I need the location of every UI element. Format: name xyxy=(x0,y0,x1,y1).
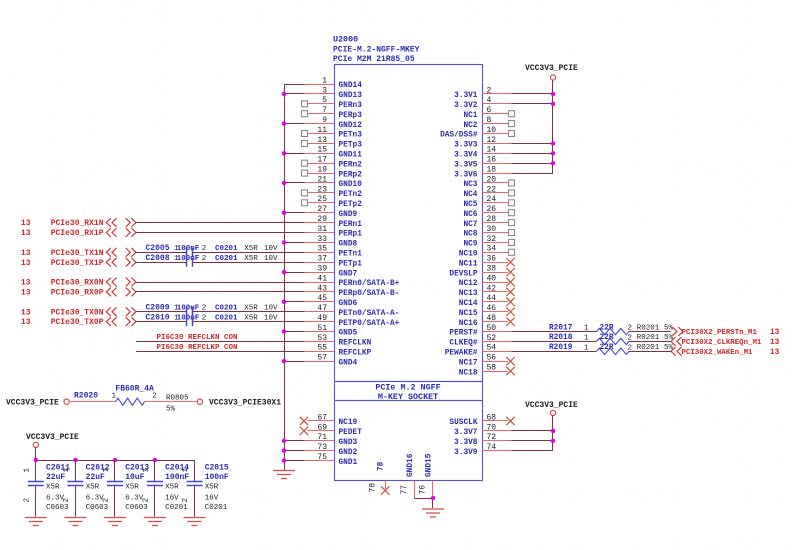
ground symbol left bus xyxy=(273,471,295,479)
svg-text:R2017: R2017 xyxy=(549,324,573,332)
pin 21 GND10 xyxy=(305,175,363,189)
wire pin 18 to VCC rail xyxy=(512,173,554,175)
svg-text:PEDET: PEDET xyxy=(339,429,363,437)
svg-text:3.3V6: 3.3V6 xyxy=(454,171,478,179)
junction VCC rail pin 14 xyxy=(551,151,555,155)
svg-text:X5R: X5R xyxy=(165,483,179,491)
svg-text:13: 13 xyxy=(21,229,31,238)
wire pin 74 to VCC rail bottom right xyxy=(512,450,554,452)
svg-text:PERST#: PERST# xyxy=(449,330,477,338)
pin 49 PETP0/SATA-A+ xyxy=(305,314,400,328)
pin 72 3.3V8 xyxy=(454,433,511,447)
svg-text:13: 13 xyxy=(21,259,31,268)
svg-text:PERn3: PERn3 xyxy=(339,102,363,110)
pin 24 NC5 xyxy=(463,195,514,209)
svg-text:M-KEY SOCKET: M-KEY SOCKET xyxy=(378,392,438,402)
svg-text:X5R: X5R xyxy=(46,483,60,491)
svg-text:2: 2 xyxy=(152,393,157,401)
svg-text:13: 13 xyxy=(21,318,31,327)
svg-text:10uF: 10uF xyxy=(125,473,144,482)
pin 5 PERn3 xyxy=(302,96,363,110)
pin 6 NC1 xyxy=(463,106,514,120)
wire capacitor bank bus xyxy=(36,460,195,462)
wire pin 12 to VCC rail xyxy=(512,143,554,145)
wire GND bus vertical xyxy=(284,84,286,471)
wire pin 51 to GND bus xyxy=(284,331,305,333)
svg-text:NC5: NC5 xyxy=(463,201,477,209)
power VCC3V3_PCIE top right xyxy=(525,64,578,80)
wire pin 14 to VCC rail xyxy=(512,153,554,155)
svg-text:22R: 22R xyxy=(600,344,614,352)
wire VCC rail vertical bottom right xyxy=(552,416,554,451)
pin 70 3.3V7 xyxy=(454,423,511,437)
pin 29 PERn1 xyxy=(305,215,363,229)
wire capacitor C2005 pin 2 to pin 35 xyxy=(192,252,304,254)
svg-text:1: 1 xyxy=(182,468,190,473)
svg-text:1: 1 xyxy=(143,468,151,473)
svg-text:PCIE-M.2-NGFF-MKEY: PCIE-M.2-NGFF-MKEY xyxy=(333,46,420,55)
capacitor C2005 100nF series xyxy=(146,244,279,257)
capacitor C2015 100nF xyxy=(182,460,229,517)
junction GND bus pin 9 xyxy=(282,121,286,125)
junction GND bus pin 51 xyxy=(282,329,286,333)
U2000 reference designator xyxy=(333,35,358,45)
pin 45 GND6 xyxy=(305,294,358,308)
wire pin 33 to GND bus xyxy=(284,242,305,244)
wire pin 77 to pin 76 xyxy=(414,498,433,508)
junction cap bus C2012 xyxy=(73,458,77,462)
svg-text:PI6C30 REFCLKP CON: PI6C30 REFCLKP CON xyxy=(157,344,238,352)
svg-text:1: 1 xyxy=(584,325,589,333)
svg-text:100nF: 100nF xyxy=(177,255,200,263)
svg-text:R2020: R2020 xyxy=(74,392,98,401)
wire pin 57 to GND bus xyxy=(284,361,305,363)
svg-text:C2005: C2005 xyxy=(146,244,170,253)
svg-text:NC6: NC6 xyxy=(463,211,477,219)
svg-text:PERp1: PERp1 xyxy=(339,231,363,239)
svg-text:X5R: X5R xyxy=(244,255,258,263)
node PCI30X2_PERSTn_M1 off-page connector xyxy=(672,327,779,337)
pin 14 3.3V4 xyxy=(454,146,511,160)
pin 25 PETp2 xyxy=(302,195,363,209)
svg-text:PETn2: PETn2 xyxy=(339,191,363,199)
svg-text:NC7: NC7 xyxy=(463,221,477,229)
svg-text:100nF: 100nF xyxy=(177,245,200,253)
svg-text:PCI30X2_CLKREQn_M1: PCI30X2_CLKREQn_M1 xyxy=(682,339,762,347)
junction VCC rail pin 70 xyxy=(551,429,555,433)
pin 19 PERp2 xyxy=(302,166,363,180)
pin 42 NC13 xyxy=(459,284,515,298)
svg-text:PETn0/SATA-A-: PETn0/SATA-A- xyxy=(339,310,400,318)
pin 11 PETn3 xyxy=(302,126,363,140)
svg-text:GND8: GND8 xyxy=(339,241,358,249)
svg-text:78: 78 xyxy=(378,461,386,471)
svg-text:VCC3V3_PCIE: VCC3V3_PCIE xyxy=(26,433,79,442)
pin 56 NC17 xyxy=(459,354,515,368)
svg-text:PERn1: PERn1 xyxy=(339,221,363,229)
svg-text:10V: 10V xyxy=(264,245,278,253)
svg-text:1: 1 xyxy=(103,468,111,473)
pin 15 GND11 xyxy=(305,146,363,160)
pin 33 GND8 xyxy=(305,235,358,249)
label strip PCIe M.2 NGFF xyxy=(375,383,440,393)
svg-text:U2000: U2000 xyxy=(333,35,358,45)
svg-text:GND13: GND13 xyxy=(339,92,363,100)
wire pin 54 to resistor R2019 xyxy=(512,351,597,353)
svg-text:PETP0/SATA-A+: PETP0/SATA-A+ xyxy=(339,320,400,328)
junction GND bus pin 71 xyxy=(282,439,286,443)
svg-text:C0201: C0201 xyxy=(205,504,228,512)
svg-text:77: 77 xyxy=(400,485,409,495)
svg-text:6.3V: 6.3V xyxy=(46,494,65,502)
svg-text:GND6: GND6 xyxy=(339,300,358,308)
svg-text:X5R: X5R xyxy=(244,245,258,253)
junction GND bus pin 27 xyxy=(282,211,286,215)
svg-text:DEVSLP: DEVSLP xyxy=(449,270,477,278)
junction cap bus C2013 xyxy=(113,458,117,462)
svg-text:NC18: NC18 xyxy=(459,369,478,377)
svg-text:NC1: NC1 xyxy=(463,112,477,120)
svg-text:78: 78 xyxy=(369,483,378,493)
svg-text:PCIe30_RX1P: PCIe30_RX1P xyxy=(51,229,104,238)
IC U2000 PCIe M.2 NGFF M-KEY socket body xyxy=(335,65,483,481)
node PCIe30_RX0N off-page connector xyxy=(21,278,136,288)
svg-text:PCIe30_RX0P: PCIe30_RX0P xyxy=(51,289,104,298)
svg-text:C2008: C2008 xyxy=(146,254,170,263)
junction GND bus pin 73 xyxy=(282,449,286,453)
capacitor C2014 100nF xyxy=(143,460,190,517)
svg-text:GND16: GND16 xyxy=(407,453,415,477)
svg-text:NC3: NC3 xyxy=(463,181,477,189)
pin 43 PERp0/SATA-B- xyxy=(305,284,400,298)
svg-text:PERp0/SATA-B-: PERp0/SATA-B- xyxy=(339,290,400,298)
svg-text:13: 13 xyxy=(21,219,31,228)
svg-text:1: 1 xyxy=(584,344,589,352)
wire power stem to cap bus xyxy=(35,447,37,460)
node PCIe30_TX1P off-page connector xyxy=(21,258,136,268)
svg-text:NC11: NC11 xyxy=(459,260,478,268)
pin 2 3.3V1 xyxy=(454,86,511,100)
pin 48 NC16 xyxy=(459,314,515,328)
pin 30 NC8 xyxy=(463,225,514,239)
pin 31 PERp1 xyxy=(305,225,363,239)
svg-text:3.3V5: 3.3V5 xyxy=(454,161,478,169)
svg-text:PCIe M2M 21R85_05: PCIe M2M 21R85_05 xyxy=(333,55,415,64)
svg-text:2: 2 xyxy=(143,498,151,503)
svg-text:2: 2 xyxy=(202,245,207,253)
wire pin 2 to VCC rail xyxy=(512,93,554,95)
wire pin 52 to resistor R2018 xyxy=(512,341,597,343)
svg-text:2: 2 xyxy=(103,498,111,503)
junction VCC rail pin 12 xyxy=(551,141,555,145)
svg-text:R2018: R2018 xyxy=(549,334,573,342)
node PCIe30_TX0P off-page connector xyxy=(21,317,136,327)
node PI6C30 REFCLKP CON net label xyxy=(157,344,238,352)
pin 28 NC7 xyxy=(463,215,514,229)
pin 18 3.3V6 xyxy=(454,166,511,180)
wire pin 71 to GND bus xyxy=(284,440,305,442)
svg-text:PERn0/SATA-B+: PERn0/SATA-B+ xyxy=(339,280,400,288)
ground symbol under C2015 xyxy=(184,518,206,526)
svg-text:GND9: GND9 xyxy=(339,211,358,219)
pin 4 3.3V2 xyxy=(454,96,511,110)
svg-text:C2015: C2015 xyxy=(205,464,229,473)
svg-text:GND12: GND12 xyxy=(339,122,363,130)
svg-text:13: 13 xyxy=(21,289,31,298)
capacitor C2010 100nF series xyxy=(146,313,279,326)
pin 52 CLKEQ# xyxy=(449,334,511,348)
wire pin 75 to GND bus xyxy=(284,460,305,462)
svg-text:10V: 10V xyxy=(264,255,278,263)
node PCIe30_RX1N off-page connector xyxy=(21,218,136,228)
svg-text:PCIe30_TX0N: PCIe30_TX0N xyxy=(51,308,104,317)
pin 17 PERn2 xyxy=(302,156,363,170)
pin 12 3.3V3 xyxy=(454,136,511,150)
node VCC3V3_PCIE net label xyxy=(6,398,59,407)
svg-text:VCC3V3_PCIE: VCC3V3_PCIE xyxy=(525,64,578,73)
svg-text:3.3V4: 3.3V4 xyxy=(454,152,478,160)
svg-text:GND5: GND5 xyxy=(339,330,358,338)
svg-text:PERn2: PERn2 xyxy=(339,161,363,169)
power VCC3V3_PCIE bottom right xyxy=(525,401,578,416)
junction GND bus pin 33 xyxy=(282,240,286,244)
svg-text:PCI30X2_WAKEn_M1: PCI30X2_WAKEn_M1 xyxy=(682,349,754,357)
pin 10 DAS/DSS# xyxy=(440,126,514,140)
svg-text:13: 13 xyxy=(21,249,31,258)
resistor R2020 FB60R_4A ferrite bead xyxy=(74,385,189,414)
svg-text:R2019: R2019 xyxy=(549,344,573,352)
svg-text:GND3: GND3 xyxy=(339,439,358,447)
pin 20 NC3 xyxy=(463,175,514,189)
junction GND bus pin 3 xyxy=(282,92,286,96)
pin 44 NC14 xyxy=(459,294,515,308)
svg-text:100nF: 100nF xyxy=(165,473,189,482)
svg-text:PETp3: PETp3 xyxy=(339,142,363,150)
svg-text:C2010: C2010 xyxy=(146,313,170,322)
svg-text:1: 1 xyxy=(24,468,32,473)
ground symbol under C2011 xyxy=(25,518,47,526)
svg-text:NC12: NC12 xyxy=(459,280,478,288)
pin 73 GND2 xyxy=(305,443,358,457)
pin 22 NC4 xyxy=(463,185,514,199)
svg-text:X5R: X5R xyxy=(205,483,219,491)
pin 51 GND5 xyxy=(305,324,358,338)
node VCC3V3_PCIE30X1 net label xyxy=(209,398,281,407)
junction GND bus pin 45 xyxy=(282,300,286,304)
ground symbol under C2013 xyxy=(104,518,126,526)
svg-text:16V: 16V xyxy=(205,494,219,502)
pin 35 PETn1 xyxy=(305,245,363,259)
svg-text:PEWAKE#: PEWAKE# xyxy=(445,350,478,358)
svg-text:13: 13 xyxy=(770,339,780,347)
junction GND bus pin 21 xyxy=(282,181,286,185)
wire pin 27 to GND bus xyxy=(284,212,305,214)
wire R2020 to port xyxy=(145,401,198,403)
wire pin 9 to GND bus xyxy=(284,123,305,125)
wire pin 39 to GND bus xyxy=(284,272,305,274)
svg-text:C0201: C0201 xyxy=(165,504,188,512)
node PCIe30_TX1N off-page connector xyxy=(21,248,136,258)
wire PI6C30 REFCLKN CON to pin 53 xyxy=(136,341,305,343)
U2000 part value PCIE-M.2-NGFF-MKEY xyxy=(333,46,420,55)
svg-text:CLKEQ#: CLKEQ# xyxy=(449,340,477,348)
wire PCIe30_RX1P to pin 31 xyxy=(136,232,305,234)
svg-text:67: 67 xyxy=(317,413,327,422)
svg-text:FB60R_4A: FB60R_4A xyxy=(115,385,154,394)
svg-text:C0603: C0603 xyxy=(46,504,69,512)
svg-text:NC19: NC19 xyxy=(339,419,358,427)
capacitor C2009 100nF series xyxy=(146,304,279,317)
wire pin 3 to GND bus xyxy=(284,93,305,95)
svg-text:NC14: NC14 xyxy=(459,300,478,308)
pin 3 GND13 xyxy=(305,86,363,100)
resistor R2017 22R xyxy=(549,324,674,334)
port circle left of R2020 xyxy=(64,399,69,404)
svg-text:NC8: NC8 xyxy=(463,231,477,239)
svg-text:PCI30X2_PERSTn_M1: PCI30X2_PERSTn_M1 xyxy=(682,329,758,337)
wire PCIe30_RX0P to pin 43 xyxy=(136,291,305,293)
port circle right of R2020 xyxy=(197,399,202,404)
svg-text:NC16: NC16 xyxy=(459,320,478,328)
pin 7 PERp3 xyxy=(302,106,363,120)
svg-text:C0603: C0603 xyxy=(125,504,148,512)
svg-text:5%: 5% xyxy=(166,405,176,413)
pin 50 PERST# xyxy=(449,324,511,338)
pin 46 NC15 xyxy=(459,304,515,318)
pin 34 NC10 xyxy=(459,245,515,259)
svg-text:VCC3V3_PCIE: VCC3V3_PCIE xyxy=(525,401,578,410)
pin 9 GND12 xyxy=(305,116,363,130)
wire PCIe30_TX1P to capacitor C2008 pin 1 xyxy=(136,262,187,264)
svg-text:NC13: NC13 xyxy=(459,290,478,298)
wire pin 72 to VCC rail bottom right xyxy=(512,440,554,442)
svg-text:GND11: GND11 xyxy=(339,152,363,160)
svg-text:C2009: C2009 xyxy=(146,304,170,313)
capacitor C2008 100nF series xyxy=(146,254,279,267)
svg-text:1: 1 xyxy=(112,393,117,401)
pin 75 GND1 xyxy=(305,453,358,467)
svg-text:22uF: 22uF xyxy=(86,473,105,482)
svg-text:3.3V2: 3.3V2 xyxy=(454,102,478,110)
svg-text:NC9: NC9 xyxy=(463,241,477,249)
svg-text:PCIe30_RX1N: PCIe30_RX1N xyxy=(51,219,104,228)
svg-text:68: 68 xyxy=(487,413,497,422)
pin 55 REFCLKP xyxy=(305,344,372,358)
svg-text:GND4: GND4 xyxy=(339,359,358,367)
capacitor C2011 22uF xyxy=(24,460,71,517)
pin 41 PERn0/SATA-B+ xyxy=(305,274,400,288)
svg-text:NC4: NC4 xyxy=(463,191,477,199)
power VCC3V3_PCIE bottom left xyxy=(26,433,79,447)
svg-text:21: 21 xyxy=(317,175,327,184)
pin 68 SUSCLK xyxy=(449,413,514,427)
svg-text:22R: 22R xyxy=(600,324,614,332)
pin 1 GND14 xyxy=(305,76,363,90)
pin 40 NC12 xyxy=(459,274,515,288)
node PCIe30_RX0P off-page connector xyxy=(21,288,136,298)
svg-text:PCIe30_TX1N: PCIe30_TX1N xyxy=(51,249,104,258)
wire VCC rail vertical top right xyxy=(552,80,554,173)
svg-text:2: 2 xyxy=(24,498,32,503)
ground symbol under C2012 xyxy=(64,518,86,526)
svg-text:22R: 22R xyxy=(600,334,614,342)
node PCIe30_RX1P off-page connector xyxy=(21,228,136,238)
svg-text:3.3V3: 3.3V3 xyxy=(454,142,478,150)
node PI6C30 REFCLKN CON net label xyxy=(157,334,238,342)
pin 54 PEWAKE# xyxy=(445,344,512,358)
svg-text:6.3V: 6.3V xyxy=(86,494,105,502)
wire pin 73 to GND bus xyxy=(284,450,305,452)
wire pin 21 to GND bus xyxy=(284,182,305,184)
pin 67 NC19 xyxy=(300,413,358,427)
pin 27 GND9 xyxy=(305,205,358,219)
svg-text:3.3V8: 3.3V8 xyxy=(454,439,478,447)
svg-text:VCC3V3_PCIE: VCC3V3_PCIE xyxy=(6,398,59,407)
svg-text:13: 13 xyxy=(770,329,780,337)
pin 8 NC2 xyxy=(463,116,514,130)
ground symbol bottom of socket xyxy=(422,509,444,517)
pin 37 PETp1 xyxy=(305,255,363,269)
svg-text:X5R: X5R xyxy=(86,483,100,491)
svg-text:3.3V1: 3.3V1 xyxy=(454,92,478,100)
pin 74 3.3V9 xyxy=(454,443,511,457)
wire capacitor C2010 pin 2 to pin 49 xyxy=(192,321,304,323)
junction GND bus pin 39 xyxy=(282,270,286,274)
resistor R2019 22R xyxy=(549,344,674,354)
svg-text:2: 2 xyxy=(63,498,71,503)
svg-text:2: 2 xyxy=(202,255,207,263)
wire pin 15 to GND bus xyxy=(284,153,305,155)
svg-text:VCC3V3_PCIE30X1: VCC3V3_PCIE30X1 xyxy=(209,398,281,407)
svg-text:20: 20 xyxy=(487,175,497,184)
svg-text:REFCLKN: REFCLKN xyxy=(339,340,372,348)
svg-text:PETn1: PETn1 xyxy=(339,251,363,259)
U2000 part number PCIe M2M 21R85_05 xyxy=(333,55,415,64)
pin 77 GND16 xyxy=(400,453,415,498)
node PCI30X2_WAKEn_M1 off-page connector xyxy=(671,347,780,357)
pin 78 xyxy=(369,461,390,494)
pin 26 NC6 xyxy=(463,205,514,219)
wire capacitor C2009 pin 2 to pin 47 xyxy=(192,311,304,313)
svg-text:6.3V: 6.3V xyxy=(125,494,144,502)
wire PI6C30 REFCLKP CON to pin 55 xyxy=(136,351,305,353)
pin 36 NC11 xyxy=(459,255,515,269)
wire resistor R2019 to off-page PCI30X2_WAKEn_M1 xyxy=(629,351,671,353)
svg-text:1: 1 xyxy=(584,334,589,342)
pin 69 PEDET xyxy=(300,423,362,437)
ground symbol under C2014 xyxy=(144,518,166,526)
pin 39 GND7 xyxy=(305,265,358,279)
svg-text:13: 13 xyxy=(770,349,780,357)
svg-text:NC10: NC10 xyxy=(459,251,478,259)
pin 38 DEVSLP xyxy=(449,265,514,279)
junction power stem cap bus xyxy=(34,458,38,462)
junction VCC rail pin 72 xyxy=(551,439,555,443)
svg-text:1: 1 xyxy=(63,468,71,473)
wire capacitor C2008 pin 2 to pin 37 xyxy=(192,262,304,264)
svg-text:R0201: R0201 xyxy=(637,344,660,352)
node PCI30X2_CLKREQn_M1 off-page connector xyxy=(671,337,780,347)
wire PCIe30_TX0N to capacitor C2009 pin 1 xyxy=(136,311,187,313)
pin 71 GND3 xyxy=(305,433,358,447)
junction GND bus pin 15 xyxy=(282,151,286,155)
pin 57 GND4 xyxy=(305,354,358,368)
wire pin 16 to VCC rail xyxy=(512,163,554,165)
wire pin 1 to GND bus xyxy=(284,84,305,86)
capacitor C2012 22uF xyxy=(63,460,110,517)
wire pin 45 to GND bus xyxy=(284,301,305,303)
svg-text:100nF: 100nF xyxy=(205,473,229,482)
